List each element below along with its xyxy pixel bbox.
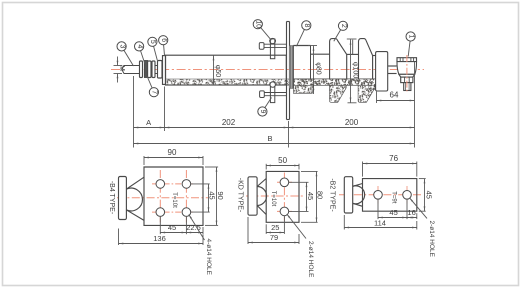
shaft end block [376, 52, 388, 91]
dim 200 [289, 127, 415, 129]
B4 chamfer bottom [126, 210, 144, 221]
main assembly horizontal centerline [111, 69, 424, 71]
svg-text:90: 90 [168, 148, 177, 157]
leader for balloon 6 [163, 44, 166, 55]
svg-text:φ50: φ50 [214, 65, 221, 77]
balloon callout 5 [148, 37, 157, 46]
svg-text:45: 45 [306, 192, 315, 200]
KD main plate [266, 171, 299, 222]
KD holes [280, 178, 289, 187]
cylinder tube body [166, 55, 287, 85]
spacer ring [152, 61, 155, 78]
svg-text:-B2 TYPE-: -B2 TYPE- [329, 178, 336, 212]
section wedge 1 [293, 85, 313, 93]
svg-text:4-ø14 HOLE: 4-ø14 HOLE [205, 239, 212, 276]
B2 dim 76 [362, 162, 364, 177]
ball joint vertical centerline [406, 55, 408, 93]
B2 bearing boss arc [353, 186, 365, 204]
shaft segment [155, 65, 158, 67]
svg-text:4: 4 [136, 44, 143, 48]
svg-text:76: 76 [389, 154, 398, 163]
KD dim 80 right [301, 170, 318, 172]
svg-text:2-ø14 HOLE: 2-ø14 HOLE [428, 221, 435, 258]
B4 chamfer top [126, 177, 144, 189]
dimension extension lines [133, 76, 135, 148]
leader for balloon 7 [147, 77, 152, 89]
svg-text:114: 114 [374, 218, 386, 227]
body line between teeth [347, 53, 359, 55]
KD dim 45 right [289, 181, 309, 183]
cylinder end cap [163, 56, 166, 85]
svg-text:φ80: φ80 [314, 62, 321, 74]
KD vertical hole centerline [283, 173, 285, 221]
phi100 extension stub [352, 40, 354, 55]
svg-text:M: M [118, 65, 125, 71]
svg-text:1: 1 [407, 35, 414, 39]
B4 vertical hole centerlines [159, 170, 161, 224]
svg-text:16: 16 [407, 208, 415, 217]
svg-text:79: 79 [270, 233, 278, 242]
lower bolt bracket [270, 83, 274, 103]
svg-text:6: 6 [160, 38, 167, 42]
B2 end plate [344, 177, 352, 213]
balloon callout 8 [302, 21, 311, 30]
lower mounting bolt [260, 91, 265, 98]
B4 hole row red ticks [152, 183, 195, 185]
KD horizontal centerline [246, 195, 305, 197]
flange weld hatch band [290, 46, 294, 89]
KD hole note leader [287, 214, 306, 239]
B4 hole note leader [189, 215, 205, 241]
svg-text:64: 64 [390, 91, 399, 100]
B2 chamfer top [353, 184, 363, 187]
section wedge 2 [330, 85, 347, 102]
svg-text:2: 2 [340, 24, 347, 28]
svg-text:2-ø14 HOLE: 2-ø14 HOLE [307, 241, 314, 278]
piston rod (threaded end) [122, 66, 140, 74]
svg-text:202: 202 [222, 118, 236, 127]
KD chamfer bottom [257, 206, 266, 215]
svg-text:T=10t: T=10t [270, 191, 276, 207]
tooth 2 trailing edge [372, 56, 374, 79]
end collar [158, 61, 163, 79]
B4 dim 90 top [143, 156, 145, 165]
balloon callout 2 [338, 21, 347, 30]
svg-text:φ100: φ100 [351, 62, 358, 78]
leader for balloon 9 [265, 98, 272, 108]
phi100 dimension [350, 40, 352, 103]
svg-text:7: 7 [151, 90, 158, 94]
B2 chamfer bottom [353, 203, 363, 206]
leader for balloon 1 [408, 41, 410, 57]
svg-text:T=9t: T=9t [390, 191, 396, 204]
leader for balloon 5 [154, 46, 158, 60]
svg-text:-B4 TYPE-: -B4 TYPE- [108, 181, 115, 215]
svg-text:T=10t: T=10t [171, 192, 177, 208]
phi80 dimension [313, 46, 315, 95]
mounting flange plate [286, 22, 288, 120]
clevis rod [388, 65, 397, 67]
svg-text:9: 9 [259, 110, 266, 114]
svg-text:-KD TYPE-: -KD TYPE- [237, 178, 244, 213]
phi80 head block [293, 45, 310, 47]
leader for balloon 3 [124, 50, 134, 66]
dim B [134, 143, 415, 145]
KD chamfer top [257, 179, 266, 187]
svg-text:8: 8 [303, 23, 310, 27]
lower screw section stipple band [293, 79, 376, 90]
tube lower wall stipple band [166, 79, 377, 85]
svg-text:10: 10 [255, 20, 262, 28]
B4 bearing boss arc [126, 188, 142, 211]
balloon callout 9 [258, 107, 267, 116]
B2 holes [374, 191, 383, 200]
balloon callout 10 [253, 20, 262, 29]
balloon callout 4 [135, 42, 144, 51]
B4 dim 136 [118, 229, 120, 246]
KD dim 79 [247, 217, 249, 244]
ball joint rod end [397, 58, 417, 62]
B4 bolt holes [156, 180, 165, 189]
KD dim 50 [265, 164, 267, 170]
dim 64 [376, 92, 378, 104]
upper bolt bracket [270, 38, 276, 43]
svg-text:90: 90 [216, 191, 225, 199]
screw flight tooth 1 [330, 39, 347, 79]
svg-text:45: 45 [389, 208, 397, 217]
B4 dim 45 right [191, 183, 210, 185]
svg-text:80: 80 [316, 191, 325, 199]
leader for balloon 2 [334, 29, 341, 41]
B2 bottom dims 45 / 16 [377, 200, 379, 220]
section wedge 3 [358, 85, 375, 102]
B4 bottom dims 45 / 22.5 [159, 216, 161, 234]
balloon callout 7 [149, 88, 158, 97]
leader for balloon 4 [140, 50, 144, 63]
B2 main plate [363, 179, 417, 212]
B2 horizontal centerline [339, 194, 422, 196]
upper mounting bolt [259, 43, 264, 50]
B4 end plate [119, 177, 127, 220]
leader for balloon 8 [297, 29, 305, 46]
body line to end block [373, 55, 376, 57]
svg-text:45: 45 [208, 191, 217, 199]
ball joint stem [404, 83, 411, 91]
B2 dim 45 right [419, 178, 426, 180]
grease port circle [270, 82, 275, 87]
nut ring [148, 61, 151, 78]
phi50 dimension [213, 55, 215, 85]
svg-text:45: 45 [424, 191, 433, 199]
balloon callout 6 [159, 36, 168, 45]
B4 horizontal centerline [117, 197, 208, 199]
svg-text:25: 25 [271, 223, 279, 232]
KD dim 25 [265, 224, 267, 234]
B4 dim 90 right [205, 166, 218, 168]
dim A [134, 127, 165, 129]
lock ring (dark) [144, 61, 147, 78]
svg-text:45: 45 [168, 223, 176, 232]
screw flight tooth 2 [359, 39, 373, 79]
leader for balloon 10 [261, 27, 272, 40]
M thread dimension [114, 65, 123, 67]
rod collar ring [140, 61, 143, 78]
svg-text:50: 50 [278, 156, 287, 165]
balloon callout 1 [406, 32, 415, 41]
svg-text:5: 5 [149, 40, 156, 44]
B2 hole note leader [410, 198, 428, 219]
svg-text:A: A [146, 118, 151, 127]
KD end plate [248, 177, 257, 215]
balloon callout 3 [117, 42, 126, 51]
B2 hole red vertical ticks [377, 186, 379, 204]
KD bearing boss arc [257, 187, 267, 206]
B2 dim 114 [343, 215, 345, 230]
dim 202 [165, 127, 289, 129]
svg-text:200: 200 [345, 118, 359, 127]
B4 main plate [144, 167, 203, 225]
svg-text:136: 136 [153, 234, 166, 243]
svg-text:B: B [267, 134, 272, 143]
KD hole red ticks [277, 181, 292, 183]
tooth 1 trailing edge [346, 54, 348, 78]
svg-text:3: 3 [118, 44, 125, 48]
